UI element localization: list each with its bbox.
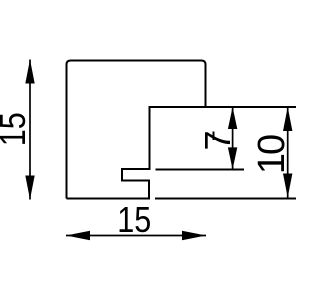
extension line for dimension 7 (groove top level) <box>156 169 245 171</box>
dimension 15 (bottom) : right arrowhead <box>182 231 206 240</box>
dimension 7 : top arrowhead <box>228 107 237 129</box>
dimension 15 (left, vertical) : line <box>29 60 31 200</box>
dimension 7 : crossbar of crossed-seven glyph <box>213 132 215 141</box>
profile body outline (15x15 square, rounded top corners) <box>67 61 206 199</box>
svg-text:15: 15 <box>117 199 151 240</box>
dimension 7 : bottom arrowhead <box>228 147 237 169</box>
dimension 15 (left) : bottom arrowhead <box>25 176 34 200</box>
panel bottom edge with extension overshoot <box>155 198 296 200</box>
dimension 15 (left) : top arrowhead <box>25 60 34 84</box>
profile bottom edge, groove notch, panel left edge and panel top edge <box>67 107 297 199</box>
dimension 15 (bottom, horizontal) : line <box>66 235 206 237</box>
dimension 7 (vertical) : line <box>232 107 234 169</box>
dimension 10 : top arrowhead <box>283 107 292 131</box>
dimension 10 : bottom arrowhead <box>283 174 292 198</box>
svg-text:7: 7 <box>197 130 238 150</box>
svg-text:15: 15 <box>0 112 33 146</box>
svg-text:10: 10 <box>251 135 293 174</box>
dimension 15 (bottom) : left arrowhead <box>66 231 90 240</box>
dimension 10 (vertical) : line <box>287 107 289 198</box>
